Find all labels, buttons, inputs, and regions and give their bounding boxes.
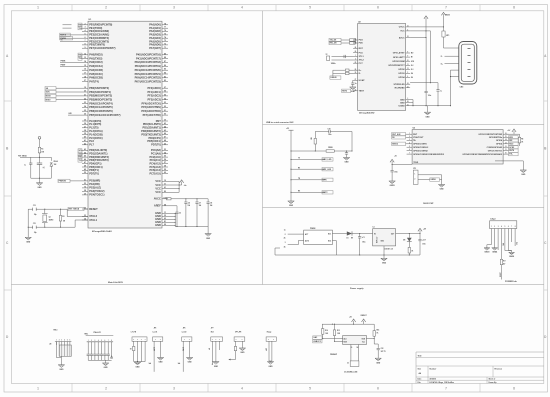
svg-text:33: 33: [84, 215, 86, 217]
caption MCU section: [108, 281, 124, 284]
svg-text:52: 52: [84, 183, 86, 185]
power flag +5V reset: [38, 137, 41, 147]
transistor T1 FDN340P: [330, 336, 375, 357]
svg-text:PB7(OC0A/OC1C/PCINT7): PB7(OC0A/OC1C/PCINT7): [89, 113, 120, 117]
svg-text:11: 11: [505, 149, 507, 151]
caption power section: [350, 287, 364, 290]
svg-text:30: 30: [164, 120, 166, 122]
svg-text:+5V: +5V: [349, 317, 352, 319]
net label USB D+ D- resistors R6 R7 22R: [330, 69, 353, 79]
svg-text:50: 50: [164, 143, 166, 145]
svg-text:36: 36: [84, 123, 86, 125]
svg-text:PK5(ADC13/PCINT21): PK5(ADC13/PCINT21): [135, 72, 161, 76]
svg-text:MOSI: MOSI: [46, 96, 51, 98]
svg-text:GND: GND: [400, 99, 405, 101]
svg-text:GND: GND: [214, 366, 219, 368]
svg-text:TX0: TX0: [79, 28, 82, 30]
svg-text:GND: GND: [351, 91, 356, 93]
svg-text:PF5(ADC5/TMS): PF5(ADC5/TMS): [141, 105, 161, 109]
svg-text:SCK: SCK: [46, 92, 51, 94]
svg-text:100: 100: [163, 197, 166, 199]
svg-text:28: 28: [407, 101, 409, 103]
svg-text:SCK2: SCK2: [509, 147, 514, 149]
svg-text:80: 80: [164, 191, 166, 193]
svg-text:GND: GND: [345, 162, 350, 164]
svg-text:73: 73: [164, 40, 166, 42]
svg-text:GPIO3: GPIO3: [398, 73, 405, 75]
svg-text:GND: GND: [136, 366, 141, 368]
svg-text:GND: GND: [382, 263, 387, 265]
caption 16U2 section: [423, 203, 434, 205]
svg-text:58: 58: [164, 166, 166, 168]
svg-text:C3: C3: [179, 212, 181, 214]
svg-text:VIN: VIN: [502, 243, 504, 246]
svg-text:50: 50: [84, 172, 86, 174]
svg-text:8U2: 8U2: [211, 331, 214, 333]
svg-text:53: 53: [164, 149, 166, 151]
svg-text:PA3(AD3): PA3(AD3): [149, 33, 161, 37]
svg-text:41: 41: [84, 139, 86, 142]
svg-text:+C1: +C1: [362, 237, 365, 239]
svg-text:R16: R16: [377, 330, 380, 332]
svg-text:TEST: TEST: [359, 91, 365, 93]
svg-text:57: 57: [164, 162, 166, 164]
svg-text:Level1: Level1: [153, 331, 158, 333]
svg-text:RST: RST: [156, 119, 162, 123]
svg-text:GND: GND: [440, 189, 445, 191]
svg-text:+5v: +5v: [184, 185, 187, 187]
caption USB section: [266, 121, 294, 124]
wire power ground rail: [275, 248, 420, 258]
capacitor C15 100n at U2: [425, 38, 432, 106]
svg-text:PB5(OC1A/PCINT5): PB5(OC1A/PCINT5): [89, 105, 113, 109]
svg-text:PA2(AD2): PA2(AD2): [149, 29, 161, 33]
svg-text:2: 2: [105, 387, 107, 391]
svg-text:1: 1: [37, 6, 39, 10]
svg-text:GPIO-A/TXT: GPIO-A/TXT: [393, 52, 406, 55]
svg-text:PB6(OC1B/PCINT6): PB6(OC1B/PCINT6): [89, 109, 113, 113]
svg-text:GPIO2: GPIO2: [398, 69, 405, 71]
ground JP5: [157, 358, 163, 364]
svg-text:C7: C7: [199, 202, 201, 204]
svg-text:PE5(OC3C/INT5): PE5(OC3C/INT5): [89, 39, 109, 43]
svg-text:15: 15: [505, 136, 507, 138]
svg-text:GND4: GND4: [492, 251, 497, 254]
svg-text:15: 15: [407, 104, 409, 106]
svg-text:32: 32: [407, 36, 409, 38]
svg-text:10: 10: [407, 60, 409, 62]
ground POWER pin2: [492, 248, 498, 254]
wires LED cluster bus: [134, 361, 145, 362]
svg-text:JP7: JP7: [211, 328, 214, 330]
svg-text:17: 17: [84, 73, 86, 75]
svg-text:RST2: RST2: [342, 90, 347, 92]
U1 pin group PD: [82, 148, 109, 175]
svg-text:TX1: TX1: [79, 160, 82, 162]
connector JP1 POWER header: [490, 219, 517, 229]
svg-text:UCAP: UCAP: [359, 79, 366, 82]
svg-text:GND: GND: [188, 362, 193, 364]
svg-text:R3: R3: [62, 216, 64, 218]
svg-text:55: 55: [164, 156, 166, 158]
jumper JP8 OPT: [234, 331, 245, 345]
svg-text:3V3 TV: 3V3 TV: [381, 351, 386, 353]
svg-text:7: 7: [445, 6, 447, 10]
net label RST 16U2: [342, 89, 351, 92]
net label +5V usbpower input: [313, 336, 322, 339]
svg-text:97: 97: [164, 87, 166, 89]
svg-text:1u: 1u: [440, 91, 442, 93]
svg-text:GPIO/CTXT0V1: GPIO/CTXT0V1: [488, 150, 503, 152]
svg-text:22p: 22p: [34, 232, 37, 234]
svg-text:PWM5: PWM5: [60, 38, 66, 40]
svg-text:VCC: VCC: [155, 186, 161, 190]
U2 right pins: [388, 26, 410, 108]
svg-text:43: 43: [84, 148, 86, 151]
svg-text:RX1: RX1: [79, 157, 83, 159]
ground section2 bus: [288, 201, 294, 207]
svg-text:R15: R15: [337, 330, 340, 332]
wires crystal rails: [28, 209, 88, 238]
svg-text:ATmega2560-16AU: ATmega2560-16AU: [92, 230, 112, 233]
ground at U1: [205, 234, 211, 240]
svg-text:PH2(XCK2): PH2(XCK2): [89, 60, 103, 64]
svg-text:89: 89: [164, 53, 166, 55]
wires reset node rails: [31, 154, 52, 179]
svg-text:78: 78: [164, 23, 166, 25]
svg-text:PF6(ADC6/TDO): PF6(ADC6/TDO): [141, 109, 161, 113]
wire PG0 net: [58, 179, 82, 182]
svg-text:PA7(AD7): PA7(AD7): [149, 46, 161, 50]
svg-text:VCC: VCC: [400, 31, 405, 33]
connector X2 USB: [451, 42, 477, 89]
wire PB7 LED: [68, 113, 82, 115]
resistor R13 OPT: [228, 346, 236, 361]
svg-text:1x8pol: 1x8pol: [490, 219, 496, 221]
svg-text:3V3: 3V3: [515, 242, 517, 245]
svg-text:PH1(TXD2): PH1(TXD2): [89, 56, 102, 60]
svg-text:16U2 ICSP: 16U2 ICSP: [423, 203, 434, 205]
ground U3 jumper: [438, 185, 444, 191]
net labels RXD2 TXD2: [78, 53, 82, 60]
capacitor C6 100n: [184, 199, 190, 227]
diode D1 M7: [346, 231, 373, 239]
svg-text:PL1(ICP5): PL1(ICP5): [89, 122, 101, 126]
svg-text:6: 6: [377, 6, 379, 10]
svg-text:26: 26: [84, 114, 86, 116]
wires usbpower top rail: [322, 324, 374, 325]
capacitor C22 3V3: [374, 339, 385, 359]
svg-text:Level2: Level2: [182, 331, 187, 333]
wire JP8 gnd pin: [241, 341, 243, 348]
svg-text:1: 1: [37, 387, 39, 391]
svg-text:VCC: VCC: [155, 183, 161, 187]
capacitor C18 100n DTR: [315, 129, 352, 152]
svg-text:S2: S2: [357, 347, 359, 349]
capacitor C8 100n: [207, 199, 213, 227]
svg-text:JP6: JP6: [183, 328, 186, 330]
svg-text:48: 48: [164, 139, 166, 142]
svg-text:8: 8: [84, 44, 85, 46]
svg-text:UVCC: UVCC: [399, 27, 405, 29]
svg-text:PL3(OC5A): PL3(OC5A): [89, 129, 103, 133]
resistor network RN3: [50, 330, 72, 365]
svg-text:PWxH-C1: PWxH-C1: [94, 332, 102, 334]
wires U2 VCC bus: [410, 21, 444, 83]
svg-text:10: 10: [505, 153, 507, 155]
svg-text:3: 3: [173, 6, 175, 10]
svg-text:GPIO/COMM: GPIO/COMM: [392, 61, 405, 63]
svg-text:25: 25: [84, 110, 86, 112]
svg-text:15: 15: [84, 65, 86, 67]
svg-text:PD0(SCL/INT0): PD0(SCL/INT0): [143, 122, 161, 126]
svg-text:PWRIN: PWRIN: [310, 228, 316, 230]
svg-text:PL5(OC5C): PL5(OC5C): [89, 136, 103, 140]
wire AREF and capacitor C3: [168, 206, 181, 227]
svg-text:C22: C22: [381, 348, 384, 350]
ground JP9: [267, 362, 273, 368]
crystal Y2 16U2: [326, 54, 354, 65]
connector X1 power jack pins: [284, 230, 304, 249]
svg-text:5: 5: [84, 33, 85, 35]
svg-text:LM1117-5.0: LM1117-5.0: [385, 249, 394, 251]
svg-text:XTALTOUT: XTALTOUT: [413, 136, 424, 139]
svg-text:OUT: OUT: [391, 233, 394, 235]
svg-text:ON: ON: [403, 240, 405, 242]
connector LED header L3C: [131, 331, 147, 361]
svg-text:92: 92: [164, 106, 166, 108]
svg-text:GND: GND: [155, 223, 161, 227]
net labels SPI SS SCK MOSI MISO: [45, 87, 82, 102]
svg-text:70: 70: [84, 187, 86, 189]
svg-text:AREF: AREF: [154, 204, 161, 208]
svg-text:PWRON: PWRON: [59, 181, 67, 183]
wire jack to diode: [332, 234, 346, 256]
svg-text:31: 31: [407, 26, 409, 28]
svg-text:JP5: JP5: [154, 328, 157, 330]
svg-text:U-DTR: U-DTR: [152, 347, 154, 351]
svg-text:42: 42: [84, 142, 86, 145]
svg-text:MF1: MF1: [446, 35, 449, 37]
svg-text:XTL2: XTL2: [359, 60, 365, 62]
svg-text:PK2(ADC10/PCINT18): PK2(ADC10/PCINT18): [135, 60, 161, 64]
IC U1 ATmega2560: [88, 21, 162, 228]
svg-text:PB2(MOSI/PCINT2): PB2(MOSI/PCINT2): [89, 94, 112, 98]
svg-text:16MHz: 16MHz: [331, 63, 336, 65]
svg-text:XTL1: XTL1: [359, 56, 365, 58]
wires U2 GND bus: [410, 100, 450, 107]
svg-text:MO2: MO2: [509, 143, 513, 145]
svg-text:22p: 22p: [34, 214, 37, 216]
svg-text:PD2(RXD1/INT2): PD2(RXD1/INT2): [89, 155, 109, 159]
capacitor C12 100n on reset node: [37, 161, 45, 179]
svg-text:30: 30: [84, 208, 86, 210]
svg-text:GND: GND: [376, 362, 381, 364]
power flag +5V at U2: [424, 16, 428, 21]
svg-text:PH6(OC2B): PH6(OC2B): [89, 76, 103, 80]
svg-text:4: 4: [241, 387, 243, 391]
svg-text:PK1(ADC9/PCINT17): PK1(ADC9/PCINT17): [136, 56, 161, 60]
svg-text:28: 28: [84, 190, 86, 192]
svg-text:7: 7: [445, 387, 447, 391]
svg-text:UGND: UGND: [398, 105, 405, 107]
svg-text:100n: 100n: [428, 95, 432, 97]
svg-text:22: 22: [355, 62, 357, 64]
svg-text:MP: MP: [208, 348, 210, 350]
svg-text:90: 90: [164, 114, 166, 116]
svg-text:61: 61: [164, 187, 166, 189]
svg-text:PG1(RD): PG1(RD): [89, 182, 100, 186]
svg-text:C8: C8: [210, 202, 212, 204]
svg-text:100u: 100u: [362, 241, 366, 243]
svg-text:PG2(ALE): PG2(ALE): [89, 186, 101, 190]
svg-text:93: 93: [164, 102, 166, 104]
svg-text:D0: D0: [392, 137, 394, 139]
svg-text:RST8: RST8: [509, 150, 514, 152]
svg-text:NC2: NC2: [328, 240, 331, 242]
svg-text:CMP: CMP: [265, 348, 267, 351]
svg-text:RST: RST: [359, 48, 364, 50]
svg-text:GPIO4/CONF4/CONF4/8U2/RXD2: GPIO4/CONF4/CONF4/8U2/RXD2: [413, 153, 445, 156]
ground JP8: [239, 348, 245, 354]
svg-text:RST B: RST B: [60, 35, 66, 37]
capacitor C7 100n: [195, 199, 201, 227]
svg-text:RST2: RST2: [323, 192, 328, 194]
svg-text:27: 27: [355, 79, 357, 81]
svg-text:GND: GND: [426, 116, 431, 118]
svg-text:PH7(T4): PH7(T4): [89, 79, 99, 83]
resistor R12 LED cluster: [130, 346, 135, 362]
svg-text:Range: Range: [267, 331, 272, 333]
wire reset to ground: [39, 178, 41, 183]
ground RN3: [58, 365, 64, 371]
svg-text:PD2(RXD1/INT2): PD2(RXD1/INT2): [141, 129, 161, 133]
svg-text:71: 71: [164, 47, 166, 49]
svg-text:13: 13: [505, 142, 507, 144]
svg-text:GND: GND: [206, 238, 211, 240]
section divider horizontal bottom: [11, 284, 543, 286]
svg-text:RST_MEGA: RST_MEGA: [69, 208, 80, 211]
svg-text:GA3: GA3: [313, 336, 317, 339]
svg-text:RX: RX: [298, 167, 300, 169]
capacitor C16 1u at U2: [410, 83, 442, 106]
svg-text:GND: GND: [159, 362, 164, 364]
svg-text:49: 49: [84, 168, 86, 171]
svg-text:100n: 100n: [394, 172, 398, 174]
ground UCAP: [350, 87, 356, 93]
svg-text:D1: D1: [347, 238, 349, 240]
svg-text:PC0(A8): PC0(A8): [151, 148, 161, 152]
svg-text:NC1: NC1: [328, 233, 331, 235]
svg-text:87: 87: [164, 61, 166, 63]
svg-text:95: 95: [164, 94, 166, 96]
svg-text:TX2: TX2: [79, 58, 82, 60]
jumper JP5 Level1: [149, 328, 163, 372]
svg-text:+C17: +C17: [422, 240, 426, 242]
caption power header: [505, 280, 517, 283]
svg-text:40: 40: [84, 136, 86, 139]
wires POWER header pins: [487, 229, 517, 259]
jumper JP9 Range: [265, 331, 277, 361]
power jack body PWRIN: [304, 228, 333, 245]
svg-text:27: 27: [84, 80, 86, 82]
svg-text:Date:: Date:: [418, 378, 423, 381]
ground C19: [343, 158, 349, 164]
svg-text:GND: GND: [400, 102, 405, 104]
svg-text:MISO2: MISO2: [392, 143, 398, 145]
svg-text:83: 83: [164, 76, 166, 78]
svg-text:RX0: RX0: [79, 24, 83, 26]
svg-text:46: 46: [164, 132, 166, 135]
LED D3 ON: [403, 234, 412, 246]
svg-text:VCC: VCC: [155, 179, 161, 183]
net labels RXD0 TXD0: [63, 23, 83, 30]
svg-text:ATmega8U2-MU: ATmega8U2-MU: [359, 112, 375, 115]
section divider horizontal USB/serial: [263, 124, 544, 126]
svg-text:RX2: RX2: [79, 54, 83, 56]
svg-text:6: 6: [84, 37, 85, 39]
svg-text:R8: R8: [521, 139, 523, 141]
svg-text:2: 2: [105, 6, 107, 10]
svg-text:98: 98: [164, 204, 166, 206]
svg-text:PL4(OC5B): PL4(OC5B): [89, 132, 103, 136]
jumper JP6 Level2: [178, 328, 192, 372]
svg-text:D-3: D-3: [411, 69, 414, 71]
svg-text:R17: R17: [503, 261, 506, 263]
svg-text:PK0(ADC8/PCINT16): PK0(ADC8/PCINT16): [136, 53, 161, 57]
svg-text:PE7(CLKO/ICP3/INT7): PE7(CLKO/ICP3/INT7): [89, 46, 115, 50]
ground PWMH: [102, 363, 108, 369]
svg-text:20: 20: [84, 91, 86, 93]
wire U3 GND right: [495, 161, 523, 170]
svg-text:ERX_LED: ERX_LED: [323, 159, 332, 161]
capacitor C11 22p: [33, 223, 37, 234]
svg-text:GPIO-LB/TT: GPIO-LB/TT: [393, 57, 406, 59]
svg-text:C18: C18: [328, 129, 331, 131]
wires PE3 PE4 PE5 nets: [60, 33, 83, 42]
svg-text:12: 12: [505, 146, 507, 148]
resistor R11 RESET header: [500, 259, 506, 280]
svg-text:GPIO/ENTR0a: GPIO/ENTR0a: [489, 137, 503, 139]
ground U2: [424, 106, 430, 119]
resistor R1 10K: [38, 146, 45, 154]
svg-text:L?C?N: L?C?N: [131, 331, 137, 333]
svg-text:8: 8: [513, 387, 515, 391]
capacitor C9 UCAP: [351, 80, 356, 87]
svg-text:PL7: PL7: [89, 143, 94, 147]
svg-text:Q1: Q1: [49, 216, 51, 218]
svg-text:Size: Size: [418, 368, 422, 370]
svg-text:MI2: MI2: [509, 140, 512, 142]
svg-text:PB0(SS/PCINT0): PB0(SS/PCINT0): [89, 86, 109, 90]
svg-text:18: 18: [84, 76, 86, 78]
svg-text:PG4(TOSC1): PG4(TOSC1): [89, 193, 104, 197]
U2 left pins: [353, 39, 365, 93]
svg-text:39: 39: [84, 133, 86, 135]
svg-text:4: 4: [241, 6, 243, 10]
wires U1 VCC bus: [168, 181, 180, 192]
svg-text:PL0(ICP4): PL0(ICP4): [89, 119, 101, 123]
svg-text:35: 35: [84, 120, 86, 122]
flag VBUS: [441, 12, 450, 17]
U1 pin group PG: [82, 179, 105, 197]
svg-text:GND: GND: [26, 242, 31, 244]
net label RST: [18, 154, 31, 157]
svg-text:RCXRXB0: RCXRXB0: [395, 87, 406, 89]
capacitor C17 100n out: [418, 234, 426, 256]
connector PWMH header: [85, 332, 114, 342]
svg-text:Z1: Z1: [347, 363, 349, 365]
